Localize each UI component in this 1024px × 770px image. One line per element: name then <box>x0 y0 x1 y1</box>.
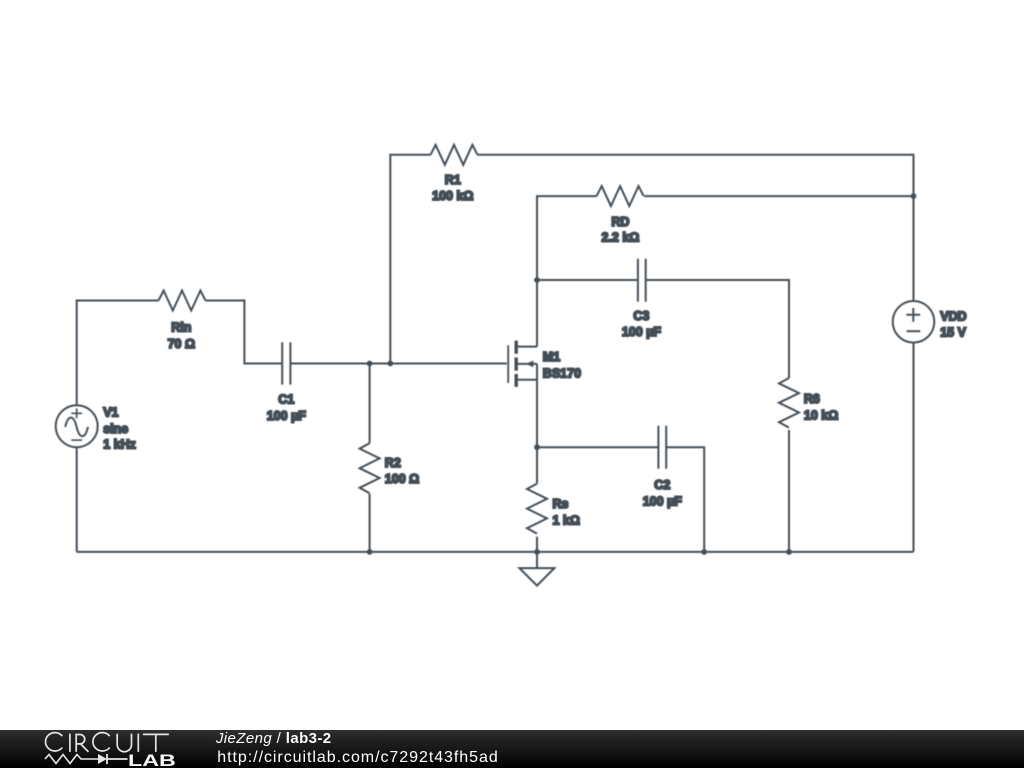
junction RD at VDD column <box>911 193 917 199</box>
wire C3 left <box>537 279 638 281</box>
wire ground rail <box>77 551 914 553</box>
svg-text:BS170: BS170 <box>543 366 581 380</box>
svg-text:M1: M1 <box>543 350 560 364</box>
svg-text:100 µF: 100 µF <box>643 495 683 509</box>
svg-text:100 µF: 100 µF <box>267 409 307 423</box>
capacitor C3 <box>638 259 646 302</box>
svg-text:10 kΩ: 10 kΩ <box>804 408 838 422</box>
svg-text:C3: C3 <box>633 309 649 323</box>
svg-text:100 kΩ: 100 kΩ <box>432 189 473 203</box>
wire VDD to ground rail <box>913 343 915 552</box>
wire R2 branch down <box>369 364 371 444</box>
svg-text:Rin: Rin <box>171 321 191 335</box>
CircuitLab logo LAB <box>128 752 176 769</box>
resistor RD <box>597 186 644 206</box>
wire C2 left <box>537 446 658 448</box>
resistor Rin <box>159 291 206 311</box>
ground symbol <box>519 552 554 586</box>
footer bar <box>0 730 1024 768</box>
wire C3 to R6 <box>646 280 789 378</box>
svg-text:1 kΩ: 1 kΩ <box>553 513 580 527</box>
resistor Rs <box>527 484 547 534</box>
svg-text:100 Ω: 100 Ω <box>385 472 419 486</box>
junction ground rail Rs <box>534 549 540 555</box>
logo letter R <box>76 733 88 751</box>
footer url <box>217 749 498 767</box>
junction ground rail C2 <box>701 549 707 555</box>
logo letter U <box>117 733 131 751</box>
svg-text:C2: C2 <box>654 478 670 492</box>
svg-text:Rs: Rs <box>553 497 569 511</box>
svg-text:100 µF: 100 µF <box>622 325 662 339</box>
wire Rs to ground rail <box>536 537 538 552</box>
wire C1 to M1 gate <box>290 363 506 365</box>
wire R1 branch up <box>390 155 430 364</box>
svg-text:70 Ω: 70 Ω <box>168 337 195 351</box>
wire V1 plus to Rin <box>77 301 159 406</box>
logo letter I <box>137 733 139 751</box>
wire V1 minus down <box>76 447 78 552</box>
wire RD to VDD column <box>644 195 913 197</box>
svg-text:RD: RD <box>611 215 629 229</box>
junction ground rail R2 <box>367 549 373 555</box>
wire RD left vertical <box>537 196 597 280</box>
logo letter T <box>143 734 169 752</box>
capacitor C1 <box>282 342 290 384</box>
wire C2 to ground rail <box>666 447 704 552</box>
junction drain C3 tap <box>534 277 540 283</box>
voltage source VDD <box>893 301 935 343</box>
resistor R1 <box>431 145 478 165</box>
wire R6 to ground rail <box>788 430 790 552</box>
footer title JieZeng / lab3-2 <box>216 730 332 747</box>
svg-text:R6: R6 <box>804 392 820 406</box>
svg-text:15 V: 15 V <box>940 326 966 340</box>
voltage source V1 <box>56 405 98 447</box>
junction node R1 tap <box>387 361 393 367</box>
transistor M1 <box>508 341 537 387</box>
CircuitLab logo CIRCUIT <box>0 730 200 769</box>
svg-text:VDD: VDD <box>940 309 966 323</box>
svg-text:1 kHz: 1 kHz <box>103 438 136 452</box>
svg-text:sine: sine <box>103 422 128 436</box>
svg-text:V1: V1 <box>103 406 118 420</box>
wire drain column <box>536 280 538 347</box>
svg-text:C1: C1 <box>278 393 294 407</box>
junction source C2 tap <box>534 444 540 450</box>
wire R2 to ground rail <box>369 494 371 552</box>
wire R1 to VDD column <box>478 155 914 301</box>
junction ground rail R6 <box>786 549 792 555</box>
wire M1 source column <box>536 364 538 484</box>
logo letter I <box>69 733 71 751</box>
svg-text:R2: R2 <box>385 456 401 470</box>
svg-text:2.2 kΩ: 2.2 kΩ <box>601 231 639 245</box>
resistor R6 <box>779 378 799 428</box>
capacitor C2 <box>658 426 666 469</box>
wire Rin to C1 <box>206 301 283 364</box>
CircuitLab logo squiggle resistor-diode <box>40 750 135 768</box>
logo letter C <box>46 732 63 750</box>
junction node R2 tap <box>367 361 373 367</box>
svg-text:R1: R1 <box>445 173 461 187</box>
logo letter C <box>93 732 110 750</box>
resistor R2 <box>360 443 380 493</box>
